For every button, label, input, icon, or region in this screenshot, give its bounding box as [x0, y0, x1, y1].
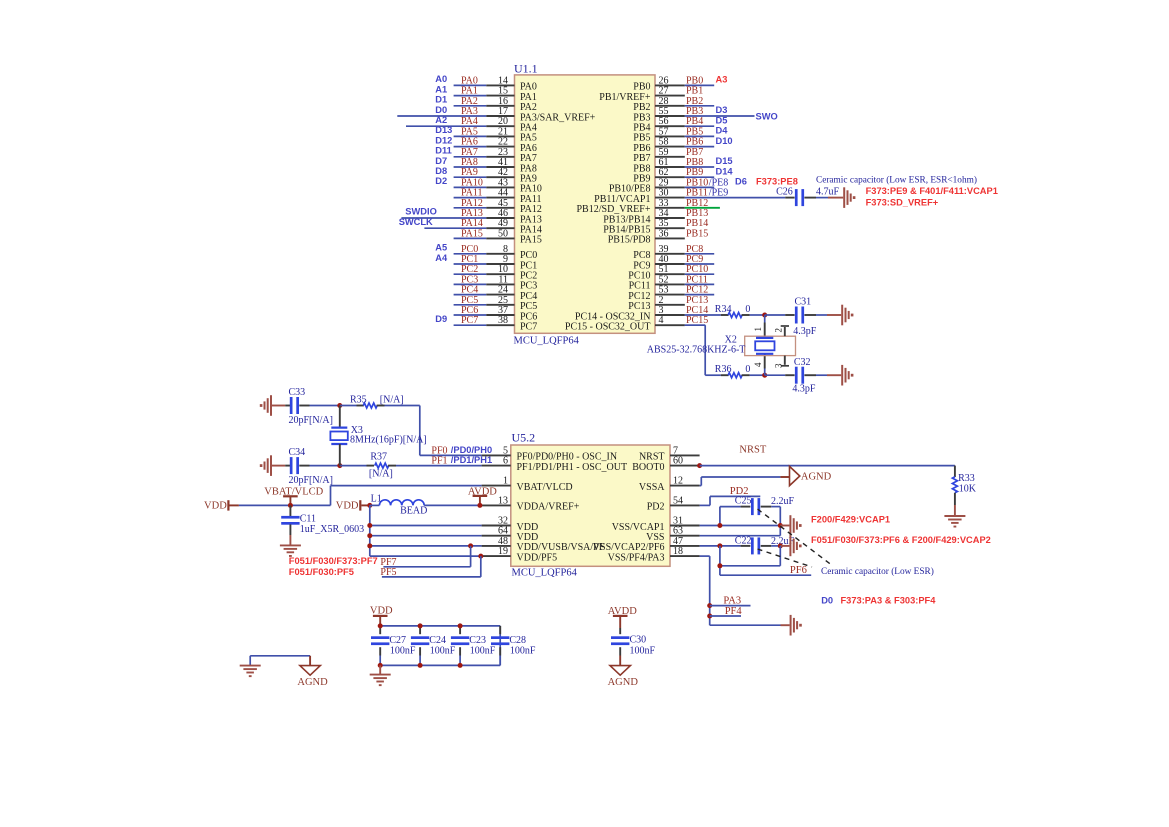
wire VSSA to AGND [700, 477, 790, 486]
svg-text:F051/F030/F373:PF7: F051/F030/F373:PF7 [289, 556, 378, 566]
U5 inside pin names [517, 452, 666, 564]
pin 8 PC0 left wire+label [435, 243, 514, 255]
pin 27 PB1 right wire+label [655, 86, 703, 97]
svg-text:100nF: 100nF [630, 646, 656, 657]
node PF7 junction [468, 543, 473, 548]
svg-text:U5.2: U5.2 [512, 431, 536, 445]
power port VDD left [204, 500, 239, 511]
node C22 right junction [778, 543, 783, 548]
node PC15/R36 junction [762, 373, 767, 378]
svg-text:AGND: AGND [608, 677, 639, 688]
svg-text:PF6: PF6 [790, 565, 807, 576]
svg-text:D10: D10 [716, 136, 733, 146]
label PA3 [723, 596, 741, 607]
pin 55 PB3 right wire+label [655, 105, 778, 121]
pin 3 PC14 right wire+label [655, 305, 721, 316]
resistor R36 0 [715, 364, 765, 378]
wire VDD cap rail bottom [380, 664, 500, 666]
label PF0 /PD0/PH0 [431, 445, 492, 457]
svg-text:ABS25-32.768KHZ-6-T: ABS25-32.768KHZ-6-T [647, 344, 746, 355]
svg-text:D6: D6 [735, 177, 747, 187]
svg-text:2.2uF: 2.2uF [771, 496, 795, 507]
wire VSS/VCAP1 row [700, 525, 781, 527]
wire PF7 [383, 546, 470, 567]
pin 21 PA5 left wire+label [435, 125, 514, 137]
pin 26 PB0 right wire+label [655, 75, 727, 87]
svg-text:U1.1: U1.1 [514, 62, 538, 76]
svg-text:C23: C23 [469, 635, 486, 646]
label F373:PA3 and F303:PF4 (red) [841, 595, 937, 605]
svg-text:PF4: PF4 [725, 606, 743, 617]
resistor R34 0 [715, 304, 765, 318]
svg-text:L1: L1 [371, 494, 382, 505]
pin 20 PA4 left wire+label [406, 115, 515, 127]
pin 59 PB7 right wire+label [655, 147, 703, 158]
svg-text:A3: A3 [716, 75, 728, 85]
svg-text:A0: A0 [435, 74, 447, 84]
power port AGND bottom left [297, 666, 328, 688]
capacitor C24 100nF [411, 626, 456, 666]
label F051/F030:PF5 (red) [289, 567, 354, 577]
svg-text:MCU_LQFP64: MCU_LQFP64 [512, 568, 578, 579]
svg-text:12: 12 [673, 476, 683, 487]
pin 2 PC13 right wire+label [655, 295, 708, 306]
svg-text:8MHz(16pF)[N/A]: 8MHz(16pF)[N/A] [350, 434, 427, 445]
svg-text:VDD: VDD [370, 605, 393, 616]
svg-text:/PD1/PH1: /PD1/PH1 [451, 455, 492, 465]
svg-text:C34: C34 [289, 447, 306, 458]
power port VBAT/VLCD [264, 486, 323, 505]
svg-text:D0: D0 [435, 105, 447, 115]
svg-text:D14: D14 [716, 166, 734, 176]
capacitor C23 100nF [451, 626, 496, 666]
svg-text:C11: C11 [300, 513, 316, 524]
wire VDD pin64 [370, 535, 482, 537]
label F051/F030/F373:PF6 and F200/F429:VCAP2 (red) [811, 535, 991, 545]
X2 pin 3 stub [781, 356, 789, 366]
svg-text:VDD: VDD [204, 501, 227, 512]
wire PC15 down [685, 325, 721, 375]
pin 58 PB6 right wire+label [655, 136, 733, 148]
pin 51 PC10 right wire+label [655, 264, 714, 275]
svg-text:A5: A5 [435, 243, 447, 253]
svg-text:C24: C24 [429, 635, 446, 646]
pin 24 PC4 left wire+label [454, 285, 515, 296]
pin 40 PC9 right wire+label [655, 254, 714, 265]
svg-text:F051/F030:PF5: F051/F030:PF5 [289, 567, 354, 577]
pin 23 PA7 left wire+label [435, 146, 514, 158]
wire VBAT to pin1 [331, 486, 482, 506]
pin 30 PB11 right wire+label [655, 188, 785, 199]
svg-text:C28: C28 [509, 635, 526, 646]
svg-text:A2: A2 [435, 115, 447, 125]
svg-text:100nF: 100nF [390, 646, 416, 657]
ground at VCAP2 [780, 536, 801, 557]
node PF4 junction [707, 614, 712, 619]
power port VDD mid [336, 500, 370, 511]
node VBAT junction [288, 503, 293, 508]
pin 46 PA13 left wire+label [401, 207, 514, 219]
svg-text:C25: C25 [735, 496, 752, 507]
label PF5 [380, 567, 396, 578]
pin 29 PB10 right wire+label [655, 177, 747, 189]
pin 62 PB9 right wire+label [655, 166, 733, 178]
svg-text:D7: D7 [435, 156, 447, 166]
capacitor C27 100nF [371, 626, 416, 666]
svg-text:PA15: PA15 [520, 235, 542, 246]
power port AGND right [790, 466, 832, 485]
svg-text:54: 54 [673, 495, 683, 506]
pin 37 PC6 left wire+label [454, 305, 515, 316]
svg-text:VBAT/VLCD: VBAT/VLCD [517, 482, 573, 493]
svg-text:50: 50 [498, 228, 508, 239]
pin 25 PC5 left wire+label [454, 295, 515, 306]
U5 right pin stubs and numbers [670, 445, 700, 557]
svg-text:13: 13 [498, 495, 508, 506]
wire ground to AGND [250, 656, 310, 666]
U5 left pin stubs and numbers [482, 445, 511, 557]
wire VDD cap rail top [380, 625, 500, 627]
power port AVDD bottom [608, 606, 637, 628]
U5 footprint label MCU_LQFP64 [512, 568, 578, 579]
X2 pin 2 stub [781, 326, 789, 336]
capacitor C34 20pF[N/A] [285, 447, 333, 486]
X2 pin 3 number [773, 363, 783, 368]
wire C34 to junction [310, 465, 340, 467]
svg-text:PC15 - OSC32_OUT: PC15 - OSC32_OUT [565, 322, 651, 333]
note ceramic capacitor low esr [816, 175, 977, 186]
svg-text:2: 2 [773, 328, 783, 333]
svg-text:SWDIO: SWDIO [405, 207, 437, 217]
dashed leader to C25 [758, 509, 834, 566]
ground at VDD caps [370, 665, 391, 686]
svg-text:D15: D15 [716, 156, 733, 166]
node X3 bottom junction [337, 463, 342, 468]
resistor R35 [N/A] [340, 395, 420, 409]
crystal X3 8MHz [330, 406, 426, 466]
node VCAP1 left junction [717, 523, 722, 528]
wire R33 to ground [954, 493, 956, 516]
pin 9 PC1 left wire+label [435, 253, 514, 265]
wire C33 to junction [310, 405, 340, 407]
ground at C11 [280, 524, 301, 557]
pin 61 PB8 right wire+label [655, 156, 733, 168]
svg-text:0: 0 [745, 364, 750, 375]
pin 35 PB14 right wire+label [655, 218, 708, 229]
pin 53 PC12 right wire+label [655, 285, 714, 296]
label PF6 [790, 565, 807, 576]
svg-text:4: 4 [659, 315, 664, 326]
resistor R37 [N/A] [340, 452, 482, 480]
power port AGND bottom right [608, 666, 639, 688]
wire PF6 [720, 574, 811, 576]
node X3 top junction [337, 403, 342, 408]
wire cap rail right side [499, 626, 501, 666]
svg-text:4.7uF: 4.7uF [816, 187, 840, 198]
wire BOOT0 to R33 [700, 466, 955, 477]
pin 36 PB15 right wire+label [655, 228, 708, 239]
svg-text:18: 18 [673, 546, 683, 557]
wire R35 to OSC_IN [420, 406, 482, 456]
svg-text:PF1/PD1/PH1 - OSC_OUT: PF1/PD1/PH1 - OSC_OUT [517, 462, 628, 473]
svg-text:D2: D2 [435, 176, 447, 186]
svg-text:3: 3 [773, 363, 783, 368]
svg-text:0: 0 [745, 304, 750, 315]
svg-text:F373:PE9 & F401/F411:VCAP1: F373:PE9 & F401/F411:VCAP1 [866, 186, 998, 196]
svg-text:[N/A]: [N/A] [369, 469, 393, 480]
svg-text:100nF: 100nF [510, 646, 536, 657]
label PF1 /PD1/PH1 [431, 455, 492, 467]
svg-text:R36: R36 [715, 364, 732, 375]
pin 50 PA15 left wire+label [454, 228, 515, 239]
svg-text:D0: D0 [821, 595, 833, 605]
pin 34 PB13 right wire+label [655, 208, 708, 219]
pin 10 PC2 left wire+label [454, 264, 515, 275]
svg-text:D11: D11 [435, 146, 452, 156]
capacitor C22 2.2uF [700, 535, 795, 554]
svg-text:F200/F429:VCAP1: F200/F429:VCAP1 [811, 514, 890, 524]
capacitor C28 100nF [491, 626, 536, 666]
svg-text:MCU_LQFP64: MCU_LQFP64 [514, 336, 580, 347]
svg-text:F373:PA3 & F303:PF4: F373:PA3 & F303:PF4 [841, 595, 937, 605]
svg-text:36: 36 [659, 228, 669, 239]
svg-text:F373:PE8: F373:PE8 [756, 177, 798, 187]
svg-text:PC7: PC7 [520, 322, 537, 333]
ground at C26 [828, 187, 855, 208]
pin 16 PA2 left wire+label [435, 95, 514, 107]
svg-text:SWO: SWO [756, 111, 778, 121]
svg-text:C33: C33 [289, 387, 306, 398]
node PF5 junction [478, 554, 483, 559]
pin 45 PA12 left wire+label [454, 198, 515, 209]
wire L1 to pin13 [424, 504, 481, 506]
node rail junctions [378, 623, 463, 668]
pin 38 PC7 left wire+label [435, 314, 514, 326]
X2 pin 4 number [753, 362, 763, 367]
wire VSS loop bottom [720, 546, 780, 575]
svg-text:PD2: PD2 [647, 502, 665, 513]
X2 pin 1 number [753, 327, 763, 332]
wire VSS/PF4/PA3 down [700, 556, 790, 625]
pin 52 PC11 right wire+label [655, 274, 714, 285]
svg-text:VDDA/VREF+: VDDA/VREF+ [517, 502, 580, 513]
label F373:PE9 and F401/F411:VCAP1 (red) [866, 186, 998, 196]
capacitor C11 1uF_X5R_0603 [281, 505, 364, 535]
MCU U5 body (MCU_LQFP64 rectangle) [511, 445, 670, 566]
node VDD pin64 junction [367, 533, 372, 538]
svg-text:A4: A4 [435, 253, 448, 263]
svg-text:AGND: AGND [297, 677, 328, 688]
pin 56 PB4 right wire+label [655, 115, 727, 127]
svg-text:C30: C30 [630, 634, 647, 645]
svg-text:1uF_X5R_0603: 1uF_X5R_0603 [300, 524, 364, 535]
svg-text:100nF: 100nF [430, 646, 456, 657]
svg-text:38: 38 [498, 315, 508, 326]
svg-text:20pF[N/A]: 20pF[N/A] [289, 475, 333, 486]
wire PF4 [710, 615, 741, 617]
wire PD2 stub [700, 496, 761, 505]
wire X2 bottom lead [764, 354, 766, 375]
label PF7 [380, 557, 396, 568]
pin 41 PA8 left wire+label [435, 156, 514, 168]
label F373:SD_VREF+ (red) [866, 197, 939, 207]
svg-text:20pF[N/A]: 20pF[N/A] [289, 415, 333, 426]
pin 4 PC15 right wire+label [655, 315, 708, 326]
label PD2 [730, 486, 749, 497]
power port AVDD upper [468, 486, 497, 505]
MCU U1 designator U1.1 [514, 62, 538, 76]
wire R36 to C32 [765, 374, 786, 376]
dashed leader to C22 [758, 549, 813, 567]
svg-text:VSS/PF4/PA3: VSS/PF4/PA3 [608, 552, 665, 563]
node C22 left junction [717, 543, 722, 548]
svg-text:AGND: AGND [801, 472, 832, 483]
ground at C33 [260, 395, 285, 416]
wire C25 left lead down [719, 507, 721, 526]
capacitor C25 2.2uF [720, 496, 795, 515]
pin 43 PA10 left wire+label [435, 176, 514, 188]
wire VDD pin48 [370, 545, 482, 547]
resistor R33 10K [952, 473, 976, 494]
capacitor C26 4.7uF [776, 187, 839, 207]
svg-text:D8: D8 [435, 166, 447, 176]
inductor L1 BEAD [370, 494, 428, 517]
svg-text:6: 6 [503, 456, 508, 467]
svg-text:D4: D4 [716, 126, 729, 136]
pin 28 PB2 right wire+label [655, 96, 714, 107]
label F373:PE8 (red) [756, 177, 798, 187]
node VCAP1 right junction [778, 523, 783, 528]
svg-text:19: 19 [498, 546, 508, 557]
svg-text:C31: C31 [795, 297, 812, 308]
pin 14 PA0 left wire+label [435, 74, 514, 86]
node loop bottom junction [717, 563, 722, 568]
pin 49 PA14 left wire+label [399, 217, 515, 229]
ground at VCAP1 [780, 515, 801, 536]
wire R34 to C31 [765, 314, 786, 316]
wire PF5 [382, 556, 481, 577]
label NRST [739, 445, 766, 456]
svg-text:/PD0/PH0: /PD0/PH0 [451, 445, 492, 455]
svg-text:VDD/PF5: VDD/PF5 [517, 552, 558, 563]
svg-text:D12: D12 [435, 135, 452, 145]
label D0 (blue) [821, 595, 833, 605]
svg-text:100nF: 100nF [470, 646, 496, 657]
wire VSS row 63 [700, 535, 781, 537]
crystal X2 ABS25-32.768KHZ-6-T [647, 335, 796, 356]
svg-text:BEAD: BEAD [400, 506, 427, 517]
svg-text:PA15: PA15 [461, 228, 483, 239]
node AVDD junction [477, 503, 482, 508]
label F051/F030/F373:PF7 (red) [289, 556, 378, 566]
pin 11 PC3 left wire+label [454, 274, 515, 285]
node BOOT0 junction [697, 463, 702, 468]
X2 pin 2 number [773, 328, 783, 333]
svg-text:PB15/PD8: PB15/PD8 [608, 235, 651, 246]
svg-text:BOOT0: BOOT0 [632, 462, 664, 473]
pin 15 PA1 left wire+label [435, 84, 514, 96]
node VDD pin48 junction [367, 543, 372, 548]
svg-text:C26: C26 [776, 187, 793, 198]
pin 17 PA3 left wire+label [397, 105, 514, 117]
svg-text:Ceramic capacitor (Low ESR, ES: Ceramic capacitor (Low ESR, ESR<1ohm) [816, 175, 977, 186]
node VDD junction [367, 503, 372, 508]
svg-text:F373:SD_VREF+: F373:SD_VREF+ [866, 197, 939, 207]
svg-text:Ceramic capacitor (Low ESR): Ceramic capacitor (Low ESR) [821, 566, 934, 577]
svg-text:PF5: PF5 [380, 567, 396, 578]
svg-text:D3: D3 [716, 105, 728, 115]
capacitor C31 4.3pF [785, 297, 827, 337]
note ceramic capacitor low esr 2 [821, 566, 934, 577]
pin 33 PB12 right wire+label [655, 198, 720, 209]
svg-text:R37: R37 [370, 452, 387, 463]
svg-text:PB15: PB15 [686, 228, 708, 239]
svg-text:60: 60 [673, 456, 683, 467]
svg-text:VDD: VDD [336, 501, 359, 512]
ground bottom left [240, 666, 261, 678]
wire PA3 [710, 605, 751, 607]
svg-text:10K: 10K [959, 483, 977, 494]
node VDD pin32 junction [367, 523, 372, 528]
svg-text:R34: R34 [715, 304, 732, 315]
svg-text:4.3pF: 4.3pF [792, 383, 816, 394]
wire C30 to AGND [619, 656, 621, 666]
label PF4 [725, 606, 743, 617]
svg-text:D5: D5 [716, 115, 728, 125]
node PA3 junction [707, 603, 712, 608]
ground at PA3/PF4 [791, 615, 802, 636]
wire VDD pin32 [370, 525, 482, 527]
pin 57 PB5 right wire+label [655, 126, 728, 138]
svg-text:R35: R35 [350, 395, 367, 406]
svg-text:C27: C27 [389, 635, 406, 646]
svg-text:C22: C22 [735, 535, 752, 546]
wire X2 top lead [764, 315, 766, 338]
wire VDD rail down [370, 505, 482, 556]
ground at C34 [260, 455, 285, 476]
U1 footprint label MCU_LQFP64 [514, 336, 580, 347]
ground at R33 [944, 516, 965, 528]
svg-text:C32: C32 [794, 357, 811, 368]
ground at C31 [827, 305, 853, 326]
svg-text:SWCLK: SWCLK [399, 217, 433, 227]
capacitor C32 4.3pF [785, 357, 827, 395]
pin 44 PA11 left wire+label [454, 188, 515, 199]
svg-text:1: 1 [753, 327, 763, 332]
node PC14/R34 junction [762, 313, 767, 318]
power port VDD bottom [370, 605, 393, 626]
ground at C32 [827, 365, 853, 386]
svg-text:1: 1 [503, 476, 508, 487]
U1 inside pin names [520, 82, 651, 333]
svg-text:4: 4 [753, 362, 763, 367]
svg-text:D9: D9 [435, 314, 447, 324]
label F200/F429:VCAP1 (red) [811, 514, 890, 524]
svg-text:4.3pF: 4.3pF [793, 326, 817, 337]
svg-text:PC7: PC7 [461, 315, 478, 326]
svg-text:D1: D1 [435, 95, 447, 105]
svg-text:D13: D13 [435, 125, 452, 135]
svg-text:F051/F030/F373:PF6 & F200/F429: F051/F030/F373:PF6 & F200/F429:VCAP2 [811, 535, 991, 545]
capacitor C30 100nF [611, 628, 656, 657]
wire C25 right lead down [779, 507, 781, 536]
pin 22 PA6 left wire+label [435, 135, 514, 147]
svg-text:VSSA: VSSA [639, 482, 665, 493]
svg-text:[N/A]: [N/A] [380, 395, 404, 406]
wire VDD to VBAT corner [239, 504, 331, 506]
MCU U1 body (MCU_LQFP64 rectangle) [515, 75, 656, 333]
pin 39 PC8 right wire+label [655, 244, 714, 255]
